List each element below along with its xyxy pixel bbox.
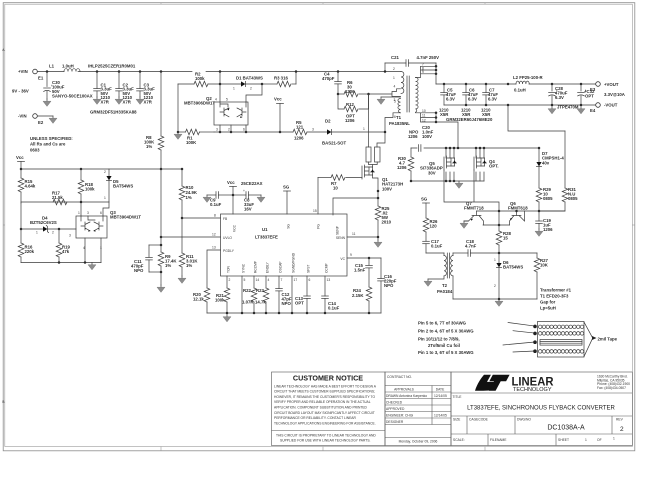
svg-text:FILENAME: FILENAME [490,438,507,442]
svg-text:12: 12 [212,233,216,237]
svg-text:1%: 1% [165,263,171,268]
svg-text:3: 3 [87,211,89,215]
wire R2 column to R1 line [174,84,182,139]
resistor R3 316 [262,76,296,87]
svg-text:9: 9 [422,70,424,74]
svg-text:Transformer #1: Transformer #1 [540,288,572,293]
svg-text:12.1k: 12.1k [193,297,204,302]
svg-text:3.3V@10A: 3.3V@10A [604,92,625,97]
capacitor C16 220pF [378,258,397,313]
svg-text:FB: FB [223,217,228,221]
svg-text:1: 1 [78,211,80,215]
svg-text:NPO: NPO [384,283,394,288]
svg-text:17: 17 [294,278,298,282]
SFST pin capacitor C13 OPT [295,276,311,313]
capacitor C15 1.5nF [354,258,372,287]
svg-text:2.15K: 2.15K [352,293,364,298]
T2 secondary [437,253,453,299]
svg-text:ENGINEER: CHGi: ENGINEER: CHGi [386,413,413,417]
svg-text:0603: 0603 [30,147,40,152]
svg-text:E3: E3 [590,87,596,92]
svg-text:OPT: OPT [585,94,594,99]
svg-text:0.1uF: 0.1uF [431,244,443,249]
terminal E4 -VOUT [590,103,618,114]
resistor R9 17.4K [158,245,177,285]
resistor R25 .02 5W [375,206,391,240]
svg-text:1: 1 [104,196,106,200]
Vcc supply symbol [274,97,284,134]
svg-text:2: 2 [393,67,395,71]
resistor R24 2.15K [352,287,372,313]
svg-text:T1: T1 [396,115,402,120]
zone tick right [632,224,635,226]
TON pin resistor R21 100k [215,276,231,313]
svg-text:U1: U1 [262,227,268,232]
svg-text:THIS CIRCUIT IS PROPRIETARY TO: THIS CIRCUIT IS PROPRIETARY TO LINEAR TE… [276,433,376,437]
ground right of C8 [257,195,265,202]
svg-text:1.5nF: 1.5nF [354,268,366,273]
svg-text:R3 316: R3 316 [274,76,288,81]
wire D5 bottom to Q3 [103,202,109,216]
snubber box left [366,94,371,162]
Vcc rail wire y132 [214,131,385,133]
svg-text:1.0uH: 1.0uH [62,64,74,69]
ENDLY pin resistor R23 14.7k [255,276,270,313]
svg-text:Pin 5 to 6, 7T of 30AWG: Pin 5 to 6, 7T of 30AWG [418,321,467,326]
resistor R5 121 [293,120,307,141]
svg-text:Monday, October 09, 2006: Monday, October 09, 2006 [399,440,438,444]
svg-text:2Tof5mil Cu foil: 2Tof5mil Cu foil [428,343,460,348]
OSCAP pin capacitor C12 47pF [276,276,292,313]
Q3 emitter stubs down [85,238,101,263]
zone tick bottom 3 [484,447,486,451]
svg-text:SENP: SENP [336,225,340,235]
capacitor C1 [93,70,112,104]
svg-text:+VIN: +VIN [18,69,28,74]
svg-text:NPO: NPO [134,268,144,273]
svg-text:4.7nF 250V: 4.7nF 250V [417,55,440,60]
svg-text:T1 EFD20-3F3: T1 EFD20-3F3 [540,294,569,299]
svg-text:MBT3906DW1T: MBT3906DW1T [184,101,215,106]
svg-text:0.1uF: 0.1uF [210,202,222,207]
svg-text:13: 13 [212,246,216,250]
resistor R15 4.64k [18,169,36,203]
svg-text:FMMT618: FMMT618 [508,206,528,211]
svg-text:12/14/05: 12/14/05 [434,394,447,398]
svg-text:6.3V: 6.3V [468,97,477,102]
svg-text:21.5k: 21.5k [52,195,63,200]
svg-text:X7R: X7R [101,99,110,104]
SG net symbol above U1 [283,185,291,215]
op-amp U1 LT3837EFE box [221,214,348,276]
svg-text:1: 1 [494,258,496,262]
wire down to Q2 and D1 line [219,72,221,103]
winding row 1 circles [538,325,583,329]
resistor R18 100k [78,169,95,216]
terminal E2 -VIN [18,114,44,126]
svg-text:6.3V: 6.3V [446,97,455,102]
transistor Q2 MBT3906DW1T dual PNP [184,96,248,132]
svg-text:R22: R22 [243,288,251,293]
T1 secondary taps 10 11 12 [416,109,459,148]
svg-text:2: 2 [104,170,106,174]
svg-text:PGDLY: PGDLY [223,249,235,253]
svg-text:Vcc: Vcc [227,180,235,185]
svg-text:C21: C21 [391,55,399,60]
winding stack box [538,322,585,358]
svg-text:15: 15 [503,236,508,241]
resistor R20 12.1k on PGDLY [193,288,210,313]
svg-text:+: + [243,189,245,193]
svg-text:VCC: VCC [233,224,237,232]
svg-text:REV: REV [616,418,624,422]
transformer T1 secondary winding [416,78,419,113]
resistor R10 24.9K [179,168,198,218]
svg-text:6: 6 [243,128,245,132]
tape brace [584,322,618,357]
svg-text:2: 2 [250,87,252,91]
svg-text:-VIN: -VIN [18,114,27,119]
diode D2 BAS21-SOT [322,119,346,146]
zone tick bottom 1 [160,447,162,451]
zone tick bottom 2 [322,447,324,451]
input rail wire [38,71,385,73]
svg-text:120: 120 [430,224,438,229]
capacitor C19 1uF [535,211,553,236]
svg-text:12/14/05: 12/14/05 [434,413,447,417]
svg-text:2: 2 [229,278,231,282]
Vcc horizontal rail y169 [21,168,182,170]
diode D5 BAT54WS [104,169,133,202]
svg-text:VC: VC [340,257,345,261]
svg-text:HOWEVER, IT REMAINS THE CUSTOM: HOWEVER, IT REMAINS THE CUSTOMER'S RESPO… [274,395,375,399]
svg-text:6: 6 [100,211,102,215]
svg-text:LT3837EFE: LT3837EFE [255,235,278,240]
capacitor C30 electrolytic [43,70,65,106]
svg-text:470pF: 470pF [322,76,335,81]
transistor Q5 Si7336ADP [420,147,456,183]
svg-text:SENN: SENN [336,236,346,240]
svg-text:7: 7 [281,278,283,282]
svg-text:2: 2 [52,231,54,235]
svg-text:SANYO-50CE100AX: SANYO-50CE100AX [52,94,93,99]
resistor R19 47k [56,229,70,263]
svg-text:100V: 100V [422,134,432,139]
svg-text:SG: SG [283,185,290,190]
svg-text:0.1uH: 0.1uH [514,88,526,93]
winding label pin 1-3 [418,349,537,355]
svg-text:1%: 1% [146,144,152,149]
winding row 2 circles [538,332,583,336]
svg-text:OSCAP: OSCAP [279,261,283,273]
svg-text:PA1835NL: PA1835NL [389,121,410,126]
svg-text:SHEET: SHEET [558,438,569,442]
T1 core [407,76,409,112]
svg-text:All Rs and Cs are: All Rs and Cs are [30,142,66,147]
svg-text:BZT52C6V2S: BZT52C6V2S [30,220,57,225]
svg-text:100k: 100k [195,76,205,81]
resistor R16 220k [18,203,34,263]
zone tick top 1 [160,3,162,4]
approvals table [385,372,451,446]
svg-text:E2: E2 [38,120,44,125]
transistor Q3 MBT3904DW1T dual NPN [76,210,141,250]
capacitor C6 47uF [461,83,478,117]
svg-text:CAGECODE: CAGECODE [469,418,489,422]
transistor Q6 FMMT618 [508,201,528,225]
SG net symbol for R26 [421,197,430,219]
svg-text:CIRCUIT THAT MEETS CUSTOMER-SU: CIRCUIT THAT MEETS CUSTOMER-SUPPLIED SPE… [274,390,375,394]
diode D6 BAT54WS [494,253,523,299]
T2 bottom rail [453,298,537,307]
transistor Q7 FMMT718 [464,201,484,225]
sync source ground rail [410,180,484,189]
svg-text:TECHNOLOGY APPLICATIONS ENGINE: TECHNOLOGY APPLICATIONS ENGINEERING FOR … [274,421,376,425]
svg-text:47k: 47k [62,249,70,254]
svg-text:R23: R23 [256,288,264,293]
svg-text:11: 11 [422,114,426,118]
svg-text:100k: 100k [215,298,225,303]
junction rail to D1 column [219,70,222,73]
CCMP pin capacitor C14 0.1uF [322,276,340,313]
svg-text:121: 121 [296,125,304,130]
svg-text:CUSTOMER NOTICE: CUSTOMER NOTICE [293,374,363,383]
svg-text:IHLP2525CZER1R0M01: IHLP2525CZER1R0M01 [88,64,136,69]
svg-text:APPROVALS: APPROVALS [394,387,415,391]
svg-text:1: 1 [36,231,38,235]
ground under R25 [374,240,382,247]
capacitor C11 470pF [131,245,152,273]
ground left of C9 [203,195,211,202]
transformer note text [540,288,572,311]
transformer T2 PA0184 primary [424,253,446,286]
winding label pin 10/11/12 [418,337,460,342]
resistor R12 OPT snubber [338,94,369,123]
svg-text:X7R: X7R [144,99,153,104]
svg-text:100V: 100V [382,186,392,191]
svg-text:1: 1 [613,437,615,441]
svg-text:APPROVED: APPROVED [386,407,405,411]
T1 primary pin5 ground [377,97,401,104]
svg-text:E4: E4 [590,108,596,113]
svg-text:OPT: OPT [295,301,304,306]
zone tick top 3 [484,3,486,4]
inductor L2 FP25-100-R [507,75,544,93]
svg-text:L2 FP25-100-R: L2 FP25-100-R [513,75,544,80]
winding label pin 2-4 [418,329,537,336]
SGND/PGND pin wire [292,276,297,313]
wire rail down to R1/R8 [160,72,162,137]
svg-text:10K: 10K [540,263,549,268]
title block right section [451,372,632,446]
svg-text:2mil Tape: 2mil Tape [598,336,618,341]
svg-text:PG: PG [317,224,321,229]
svg-text:2: 2 [620,426,624,433]
svg-text:1%: 1% [186,263,192,268]
signal ground rail under U1 [207,312,381,322]
resistor R28 15 [496,225,511,253]
SYNC pin wire [242,276,246,313]
T1 primary mid tap wires [369,85,401,103]
svg-text:OPT.: OPT. [489,164,499,169]
svg-text:Lp=5uH: Lp=5uH [540,306,556,311]
svg-text:40v: 40v [542,160,550,165]
gate drive rail [444,170,499,225]
svg-text:Pin 2 to 4, 6T of 5 X 30AWG: Pin 2 to 4, 6T of 5 X 30AWG [418,329,474,334]
svg-text:Pin 1 to 3, 6T of 5 X 30AWG: Pin 1 to 3, 6T of 5 X 30AWG [418,350,474,355]
svg-text:1206: 1206 [345,89,355,94]
svg-text:Fax: (408)434-0507: Fax: (408)434-0507 [597,386,626,390]
wire Q1 source down [373,175,379,206]
svg-text:CONTRACT NO.: CONTRACT NO. [387,375,412,379]
output rail + [436,83,595,85]
resistor R30 4.7 [397,148,414,181]
ground rail under Q3 [21,261,101,270]
Q2 emitter stubs to rail [220,125,246,132]
T1 pin6 wire down [385,113,401,132]
svg-text:CHECKED: CHECKED [386,400,403,404]
transistor Q1 HAT2173H [362,165,403,191]
capacitor C20 1.0nF [408,125,434,151]
svg-text:6.3V: 6.3V [488,97,497,102]
switch node rail [411,147,539,149]
svg-text:15: 15 [313,209,317,213]
UVLO filter bottom rail + ground [149,271,165,293]
zone tick top 2 [322,3,324,4]
capacitor C5 47uF [439,83,456,117]
svg-text:10: 10 [333,186,338,191]
svg-text:2: 2 [228,128,230,132]
FB pin wire [181,214,221,220]
svg-text:Vcc: Vcc [274,97,282,102]
svg-text:E1: E1 [38,76,44,81]
resistor R31 N.U [539,187,578,211]
T2 core [447,253,449,278]
svg-text:RCCMP: RCCMP [254,260,258,273]
driver base rail [477,210,566,212]
resistor R29 10 [536,187,553,211]
capacitor C8 33uF polarized [233,189,261,212]
svg-text:3: 3 [69,234,71,238]
diode D7 CMPSH1-4 [536,147,564,188]
svg-text:Pin 10/11/12 to 7/8/9,: Pin 10/11/12 to 7/8/9, [418,337,460,342]
svg-text:5: 5 [394,100,396,104]
svg-text:ENDLY: ENDLY [266,261,270,273]
wire R3 up to rail [295,70,298,84]
svg-text:PA0184: PA0184 [437,289,453,294]
svg-text:BAS21-SOT: BAS21-SOT [322,141,346,146]
scale row [487,434,489,446]
winding label cu foil [428,340,537,348]
terminal E1 +VIN [18,69,44,81]
wire R31 column from return rail [564,131,566,188]
svg-text:D2: D2 [325,119,331,124]
svg-text:1%: 1% [186,195,192,200]
svg-text:X7R: X7R [123,99,132,104]
svg-text:25CE22AX: 25CE22AX [241,181,263,186]
svg-text:1206: 1206 [408,134,418,139]
svg-text:1: 1 [585,438,587,442]
svg-text:BAT54WS: BAT54WS [503,265,523,270]
label unless specified [30,136,73,152]
driver emitter rail [483,224,510,226]
svg-text:13: 13 [327,278,331,282]
svg-text:1206: 1206 [397,165,407,170]
svg-text:SCALE:: SCALE: [453,438,465,442]
svg-text:100k: 100k [85,187,95,192]
resistor R1 100K [178,129,214,145]
svg-text:+VOUT: +VOUT [604,82,619,87]
svg-text:SFST: SFST [307,265,311,273]
svg-text:2: 2 [494,284,496,288]
resistor R2 on rail [178,72,220,87]
Vcc supply above U1 [227,180,237,214]
svg-text:DESIGNER: DESIGNER [386,420,404,424]
resistor R11 3.01K [178,218,198,283]
svg-text:TON: TON [227,265,231,273]
svg-text:1.07K: 1.07K [242,300,254,305]
svg-text:L1: L1 [49,64,55,69]
svg-text:16V: 16V [244,207,252,212]
svg-text:1206: 1206 [345,118,355,123]
size row [466,416,468,434]
wire SENN line [347,232,379,238]
svg-text:14: 14 [256,278,260,282]
ground at E2 [49,116,57,123]
svg-text:0805: 0805 [543,196,553,201]
resistor R7 10 gate [331,175,362,191]
svg-text:12: 12 [422,118,426,122]
resistor R26 120 [423,218,438,241]
svg-text:SG: SG [287,224,291,229]
ground under C28 [548,107,556,114]
svg-text:4.64k: 4.64k [25,184,36,189]
snubber box right [375,131,387,162]
capacitor C32 OPT [578,83,595,105]
wire SENP line [333,198,378,215]
wire D1 drop to Q2 [246,83,263,102]
svg-text:DWG/NO: DWG/NO [517,418,531,422]
svg-text:6: 6 [309,278,311,282]
diode D1 BAT43WS [220,76,263,91]
svg-text:UVLO: UVLO [223,236,232,240]
svg-text:5: 5 [226,98,228,102]
capacitor C21 4.7nF 250V [384,55,439,73]
PGDLY pin wire [207,246,221,289]
svg-text:DATE: DATE [436,387,445,391]
svg-text:0805: 0805 [568,196,578,201]
svg-text:NPO: NPO [282,301,292,306]
svg-text:100K: 100K [186,140,197,145]
capacitor C3 [136,70,155,104]
svg-text:LINEAR TECHNOLOGY HAS MADE A B: LINEAR TECHNOLOGY HAS MADE A BEST EFFORT… [274,384,377,388]
capacitor C18 4.7nF [453,239,537,256]
resistor R17 21.5k [52,191,67,205]
diode D4 BZT52C6V2S zener [21,216,76,238]
rail y202 [21,201,109,203]
svg-text:-VOUT: -VOUT [604,103,618,108]
Linear Technology logo mark [475,375,499,391]
svg-text:0.1uF: 0.1uF [328,306,340,311]
svg-text:3: 3 [312,128,314,132]
RCCMP pin resistor R22 1.07K [242,276,259,313]
svg-text:SIZE: SIZE [453,418,461,422]
svg-text:4.7nF: 4.7nF [465,244,477,249]
svg-text:1: 1 [233,87,235,91]
svg-text:BAT54WS: BAT54WS [113,184,133,189]
node junction rail/R8 column [160,70,163,73]
UVLO pin wire [160,233,221,239]
